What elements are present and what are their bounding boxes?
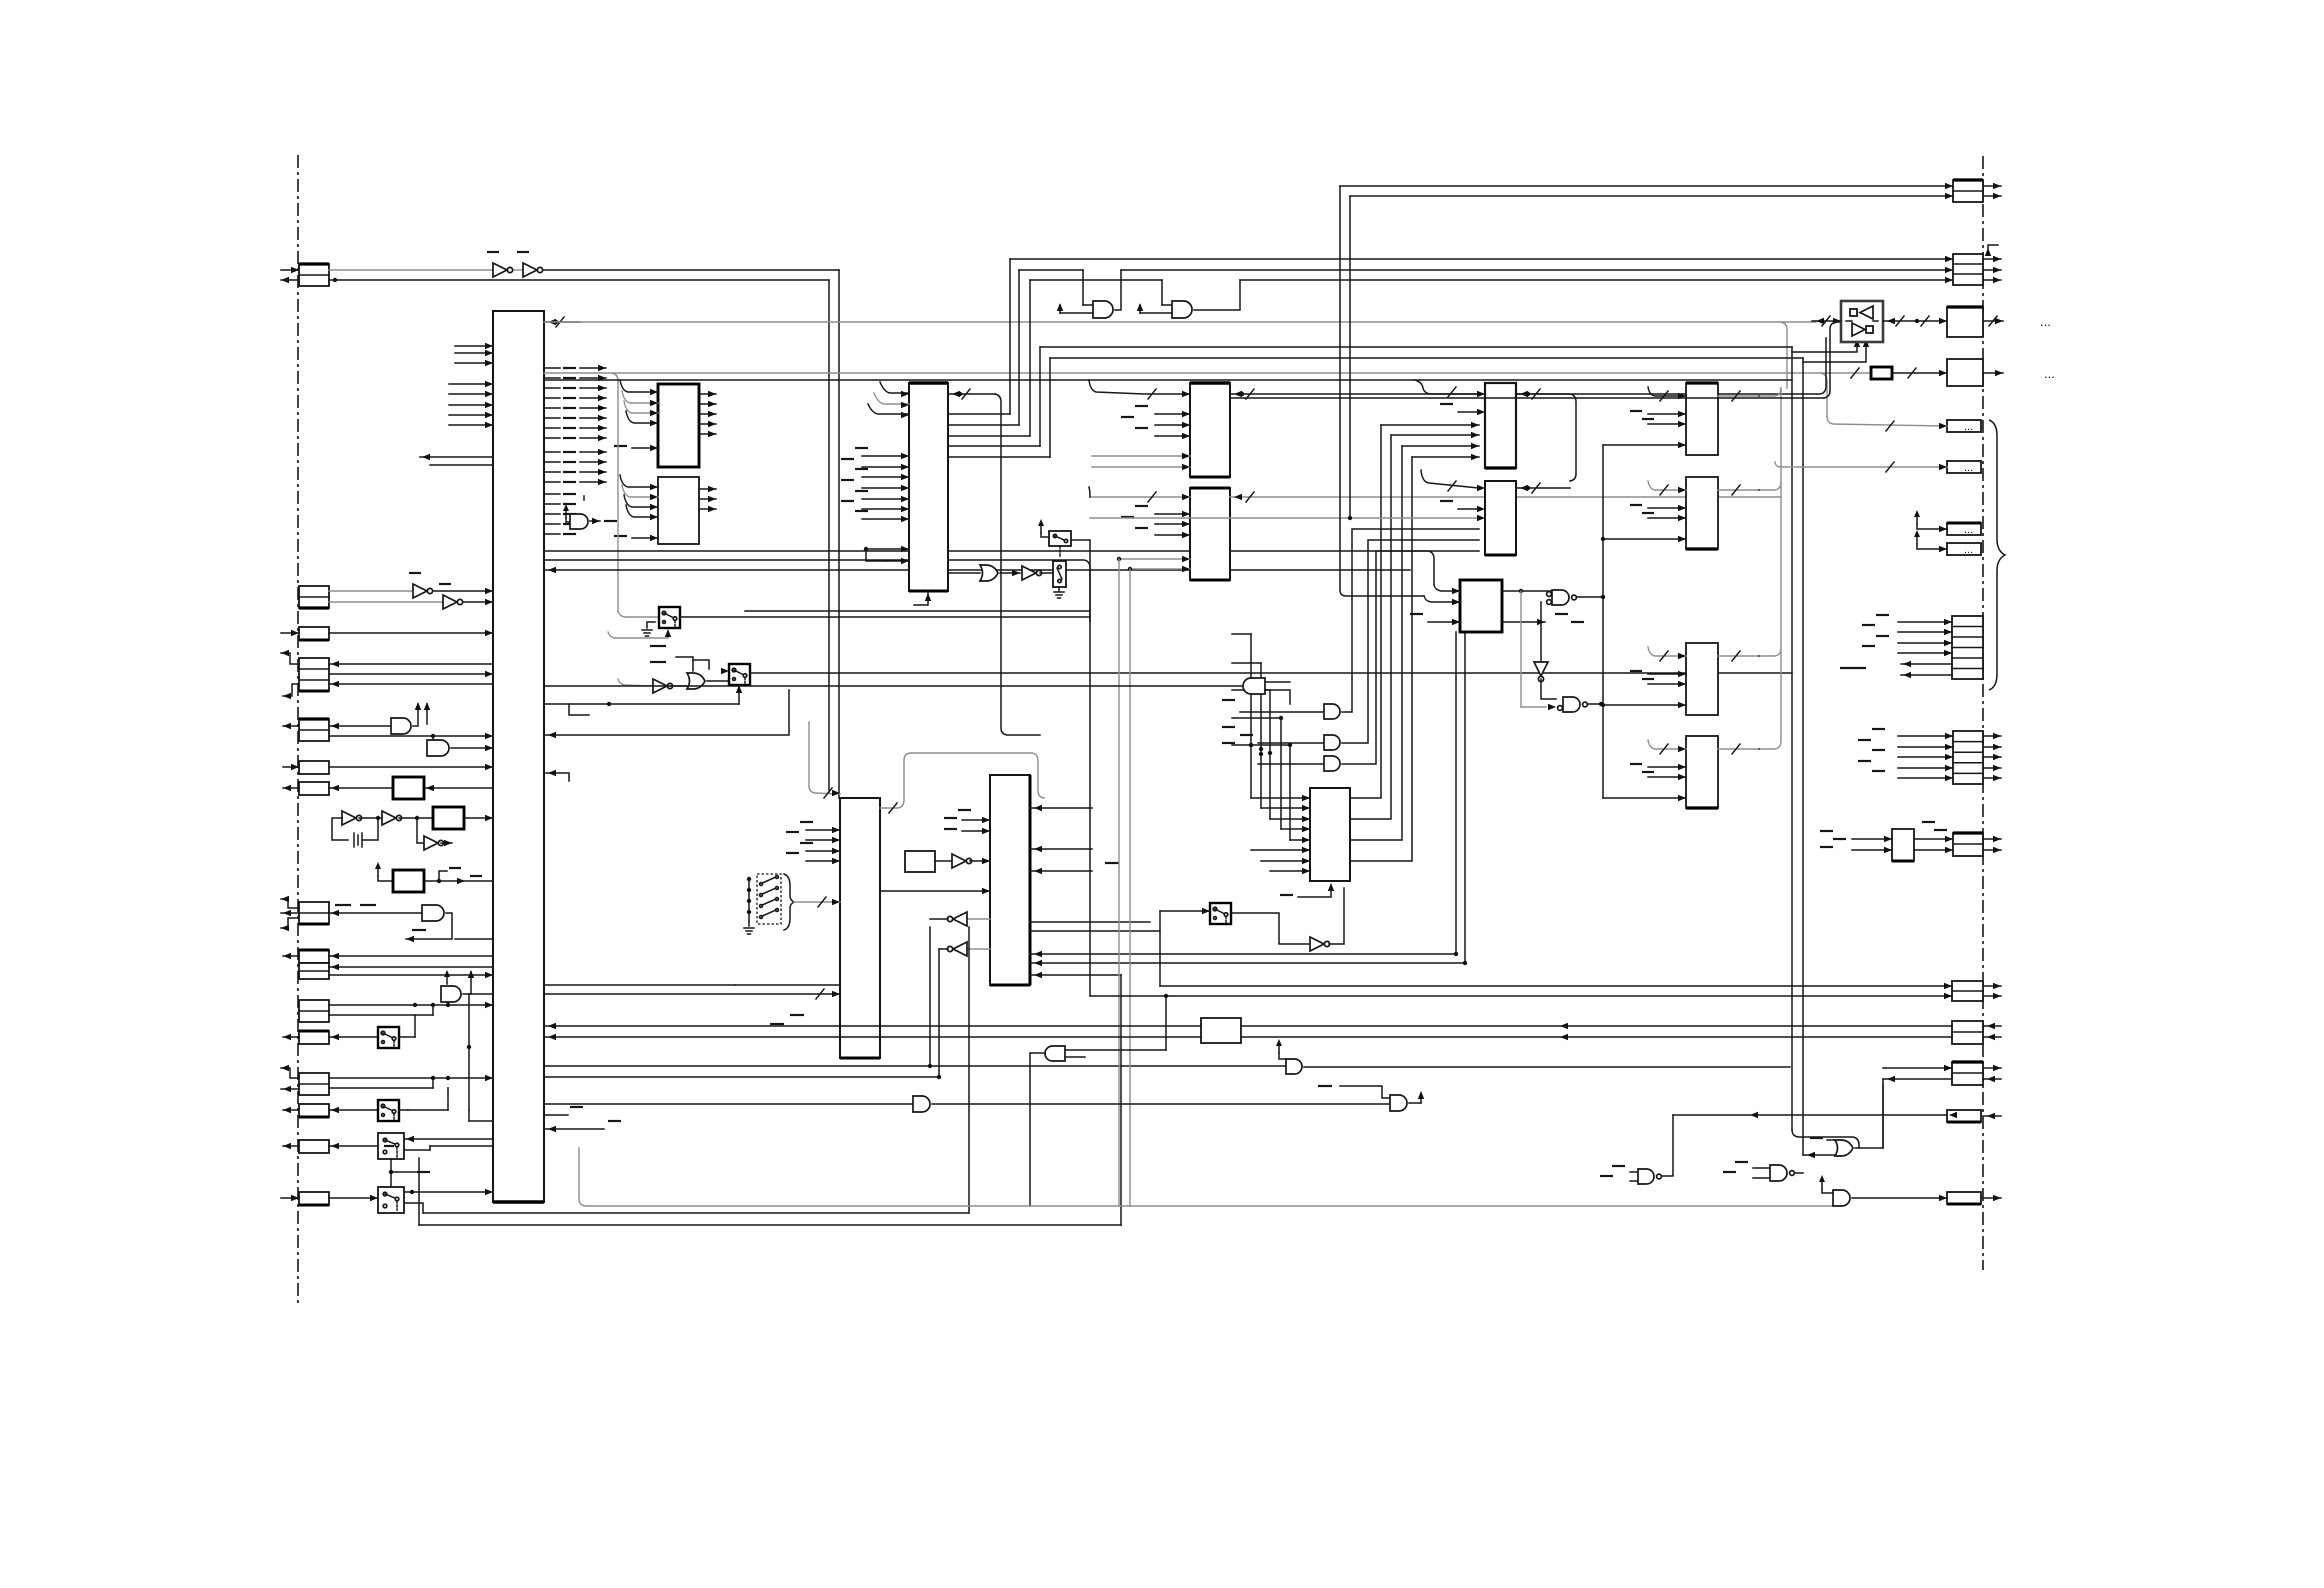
bend of x1792 vertical	[1792, 1130, 1859, 1148]
connector P7 (thin bold top)	[1947, 523, 1981, 536]
net labels above inverter	[650, 646, 666, 662]
wires P13 to left (through series box)	[1241, 1023, 1952, 1040]
AND gate G4	[441, 970, 474, 1005]
AND gate G5 (left of U2)	[563, 496, 617, 529]
U1 right pin rows (lower)	[544, 494, 576, 534]
U5 bottom long wires	[544, 927, 1286, 1077]
connector J10 (3 rows)	[0, 0, 1, 1]
U2 output pins	[699, 391, 716, 437]
U1 top-left pin stubs	[449, 343, 493, 428]
IC U2 (latch, bold)	[658, 384, 699, 467]
SW3 input wires from U1	[404, 1136, 493, 1150]
connector P9 (6-row stack)	[1952, 616, 1983, 679]
series box U17	[544, 1018, 1241, 1043]
wire J5 row2 to AND G2	[329, 733, 493, 746]
wire J3 to U1	[329, 630, 493, 636]
P2 top hook	[1985, 245, 1998, 256]
switch SW4 (2pos)	[329, 1187, 404, 1213]
connector J8 (2 rows)	[299, 902, 329, 924]
risers x1119 x1130 (gray)	[1119, 559, 1130, 1206]
long verticals x1792 x1803	[1792, 347, 1803, 1155]
U19 right bus	[1516, 483, 1570, 493]
connector P5 (thin)	[1947, 420, 1981, 433]
wire J9	[329, 953, 493, 959]
DIP brace	[784, 874, 794, 930]
U11 right bus	[1718, 388, 1781, 401]
top wire W280	[1030, 277, 1953, 283]
U4 bottom stub	[914, 591, 931, 605]
connector J17	[281, 1192, 329, 1205]
J14 wires	[329, 1075, 493, 1088]
U4 clock pin bracket	[864, 546, 909, 564]
J8 hooks	[281, 896, 299, 931]
vertical x1883 riser	[1882, 1079, 1884, 1148]
AND gate G22	[1276, 1039, 1790, 1074]
J4 row wires	[329, 661, 493, 687]
IC U7 (right-mid upper, bold)	[1190, 383, 1230, 477]
IC U3 (latch)	[658, 477, 699, 544]
bus W-380	[544, 379, 1792, 381]
inverter U33	[439, 584, 463, 609]
U1 top-right bus pin	[544, 317, 580, 327]
IC U9 (decoder)	[1310, 788, 1350, 881]
stub W773	[546, 770, 569, 781]
buffer U46	[1022, 566, 1053, 580]
U10 enable	[1410, 614, 1460, 625]
U4 right outputs to nest	[948, 414, 1050, 457]
loop path from U48 to x1090	[745, 540, 1090, 622]
S1 select arrow from below	[608, 629, 671, 638]
U7 left bus input	[1089, 380, 1190, 399]
U6 right wires y954 y963 y975	[1030, 951, 1467, 978]
connector P14 (2 rows bold top)	[1952, 1062, 2001, 1085]
U1 right pin rows (mid)	[544, 449, 606, 485]
gray bottom rail	[579, 1148, 1130, 1206]
wire into P5	[1827, 417, 1947, 431]
gray wire W518 into U19	[1090, 515, 1485, 521]
OR gate G9	[687, 673, 729, 689]
bottom long wires	[419, 975, 1121, 1225]
NAND gate G15	[1558, 697, 1604, 712]
U18 label pin	[1440, 404, 1485, 415]
top wire W347	[1040, 346, 1792, 348]
top wire W259	[1010, 256, 1953, 262]
U18 top bus input	[1415, 380, 1485, 397]
AND gate G2	[427, 740, 493, 756]
U13 bus input	[1648, 647, 1686, 661]
top nest vertical risers from U4 outputs	[1010, 259, 1050, 457]
J12 wires + AND G4	[329, 1002, 493, 1015]
right brace	[1989, 420, 2005, 690]
buffer U55	[1231, 888, 1344, 951]
connector P10 (5-row stack)	[1953, 731, 2001, 784]
inverter U32	[409, 573, 433, 598]
U9 output horizontals into U18	[1381, 422, 1479, 460]
switch S2	[693, 660, 750, 685]
wires J2 to inverters U32 U33	[329, 588, 493, 605]
connector J4 (3 rows)	[299, 658, 329, 691]
U7 lower-left gray pins	[1092, 453, 1190, 470]
U15 right bus to P3	[1883, 316, 1947, 326]
buffer U44	[417, 818, 452, 850]
wires U1 right bottom legs	[469, 1120, 493, 1122]
U12 data pins	[1630, 505, 1686, 521]
J4 hook stubs	[281, 650, 299, 699]
IC U4 (control, tall)	[909, 383, 948, 591]
connector J15	[283, 1104, 329, 1117]
U5 lower-left labels	[770, 1015, 804, 1024]
connector J3	[281, 627, 329, 640]
box U50 + buffer U51 feeding U6	[905, 851, 990, 872]
wire J5 row1 to AND G1	[329, 723, 391, 729]
vertical trunk x469	[467, 994, 493, 1121]
switch S3	[1160, 903, 1231, 924]
IC U8 (right-mid lower)	[1190, 488, 1230, 580]
S2 output long wire	[750, 672, 1792, 674]
J11 wires	[329, 964, 493, 978]
mux switch U48 (horizontal)	[1038, 519, 1071, 556]
IC U6 (tall mid right)	[990, 775, 1030, 985]
box U43 (osc divider)	[399, 807, 493, 829]
U3 enable input	[614, 535, 658, 541]
connector P16 (thin)	[1947, 1192, 2001, 1204]
svg-text:...: ...	[1964, 524, 1973, 536]
U7 right bus out	[1230, 338, 1826, 399]
gray bus W-g322	[544, 322, 1816, 388]
wire J8 to AND G3	[329, 905, 422, 916]
junction trunk between SW3 SW4	[389, 1159, 430, 1187]
IC U1 (main gate array, tall)	[493, 311, 544, 1202]
U5 top-left bus	[809, 722, 840, 798]
oscillator inverter U42	[359, 811, 402, 825]
U6 right wires y922 y931	[1030, 922, 1160, 931]
inverter U49	[618, 679, 687, 693]
U4 top-right bus pin	[948, 389, 1040, 735]
crystal X1	[354, 818, 378, 847]
U6 right side pins	[1030, 805, 1119, 874]
wire x1090 riser to W617	[1089, 617, 1091, 996]
trunk from switches to U1 bottom wires	[408, 1088, 448, 1110]
wire J6 to U1	[329, 764, 493, 770]
connector J12 (2 rows)	[299, 1000, 329, 1022]
left board boundary dash-dot line	[297, 155, 299, 1305]
U8 right bus out gray	[1230, 492, 1781, 502]
switch SW2	[329, 1088, 469, 1121]
U19 label pin	[1440, 501, 1485, 512]
U5 left input pins	[786, 822, 840, 864]
U14 clock pin long	[1603, 795, 1686, 801]
connector J6	[283, 761, 329, 774]
U9 enable	[1280, 883, 1334, 897]
OR gate G8 (U4 out)	[948, 565, 1020, 581]
switch SW3 (2pos)	[329, 1133, 404, 1159]
U14 bus input	[1648, 740, 1686, 754]
U5 top-right bus loop	[880, 753, 1044, 813]
IC U16 (small, by right edge)	[1892, 829, 1914, 861]
wire U5 to U6 y891	[880, 888, 990, 894]
connector P12 (2 rows)	[1952, 981, 2001, 1001]
tri-state buffer U53	[937, 942, 990, 1079]
connector J9	[283, 950, 329, 963]
U1 left stub arrow out y457	[420, 454, 493, 465]
svg-text:...: ...	[2040, 314, 2051, 329]
AND gate G19	[1130, 1175, 1947, 1206]
connector J1 (top-left, 2 rows)	[281, 264, 329, 286]
U1 right pin rows with net labels (upper)	[544, 365, 606, 441]
AND gate G10	[1222, 529, 1479, 719]
NAND gate G18	[1723, 1162, 1803, 1181]
wires into P12	[1090, 911, 1952, 999]
U8 lower-left pins from risers	[1117, 556, 1190, 572]
P8 power hook	[1914, 530, 1947, 552]
U13 clock pin long	[1603, 702, 1686, 708]
clock trunk	[1601, 445, 1605, 798]
AND gate G1	[391, 702, 421, 734]
riser x1090 vertical (bus feed)	[1089, 380, 1090, 497]
U11 bus input	[1648, 387, 1686, 401]
IC U5 (tall mid)	[840, 798, 880, 1058]
AND gate G12	[1258, 551, 1479, 771]
right board boundary dash-dot line	[1982, 156, 1984, 1270]
OR gate G17	[1803, 1085, 1883, 1158]
svg-text:...: ...	[1964, 544, 1973, 556]
IC U13 (register)	[1686, 643, 1718, 715]
U15 left bus wires	[1230, 316, 1841, 398]
AND gate G6 (top)	[1057, 270, 1121, 318]
wire into P15 from G16	[1673, 1112, 1957, 1118]
tri-state buffer U52	[928, 912, 990, 1068]
U19 bus input	[1421, 470, 1485, 491]
IC U12 (register)	[1686, 477, 1718, 549]
connector P4	[1947, 359, 2055, 386]
connector P2 (3 rows)	[1953, 254, 2001, 285]
AND gate G7 (top)	[1137, 280, 1240, 318]
connector J5 (2 rows)	[283, 719, 329, 741]
bus W-g373 (gray mid bus)	[544, 373, 1871, 611]
U11 clock pin long	[1603, 442, 1686, 448]
svg-text:...: ...	[1964, 421, 1973, 433]
connector P6 (thin)	[1947, 461, 1981, 474]
gray feedback vertical	[1521, 591, 1556, 710]
S2 bottom select from W704	[544, 685, 742, 715]
wire top pair bends down	[829, 270, 839, 798]
inverter U30	[487, 252, 513, 277]
connector J14 (2 rows)	[299, 1073, 329, 1095]
U3 output pins	[699, 486, 716, 512]
U2 enable input	[614, 445, 658, 451]
switch SW1	[329, 1003, 417, 1048]
U8 left pins	[1121, 506, 1190, 538]
U7 left pins	[1121, 406, 1190, 439]
U12 right bus	[1718, 482, 1781, 495]
wire J1 out (gray) through inverters	[329, 270, 839, 282]
connector P15 (thin)	[1947, 1110, 2001, 1122]
AND gate G3	[406, 905, 493, 942]
box U45	[375, 862, 493, 892]
connector J11 (3 rows)	[299, 963, 329, 979]
gray bus spine x1781	[1780, 388, 1782, 741]
S1 output wire long	[680, 616, 1090, 618]
U4 left pins with labels	[841, 448, 909, 522]
top wire W270	[1019, 267, 1953, 273]
U12 bus input	[1648, 481, 1686, 495]
bidirectional buffer U15	[1841, 301, 1883, 342]
oscillator inverter U41	[332, 811, 362, 840]
U16 outputs + labels	[1914, 822, 1953, 853]
connector P13 (2 rows)	[1952, 1021, 2001, 1044]
D-gate G13 (output-left AND)	[544, 678, 1290, 704]
U4 input curves top	[868, 382, 909, 418]
U13 data pins	[1630, 671, 1686, 687]
U10 out wires	[1502, 589, 1584, 625]
D-gate G21 (output-left)	[1030, 994, 1168, 1206]
U14 right bus	[1718, 741, 1781, 754]
connector P8 (thin)	[1947, 543, 1981, 556]
AND gate G20 (bottom mid)	[544, 1096, 1390, 1112]
top wire W358	[1050, 357, 1803, 359]
IC U10 (bold box mid-right)	[1460, 580, 1502, 632]
IC U11 (register)	[1686, 383, 1718, 455]
U16 inputs	[1820, 831, 1892, 853]
wires U1-to-U8 rows y551 y560 y570	[544, 551, 1434, 617]
AND gate G23	[1318, 1086, 1424, 1111]
box U40 (level shifter)	[329, 777, 493, 799]
DIP bus wire to U5	[794, 897, 840, 907]
svg-text:...: ...	[2044, 366, 2055, 381]
J14 hooks	[281, 1065, 299, 1092]
vertical riser x969	[968, 927, 970, 1213]
P7 power hook	[1914, 510, 1947, 532]
U14 data pins	[1630, 764, 1686, 780]
buffer enable stubs	[1792, 339, 1869, 362]
U9 feeder horizontals	[1232, 634, 1290, 756]
U9 input columns	[1249, 634, 1310, 874]
svg-text:...: ...	[1964, 462, 1973, 474]
U11 data pins	[1630, 411, 1686, 427]
U2 input curves	[620, 380, 658, 426]
wires into U5 left at 985/994	[544, 985, 840, 999]
inverter U31	[517, 252, 543, 277]
switch S1	[618, 607, 680, 628]
down inverter U54	[1534, 602, 1556, 699]
wire W735	[544, 690, 789, 738]
U6 left pins	[944, 810, 990, 834]
connector P1 (2 rows)	[1953, 180, 2001, 202]
U3 input curves	[620, 475, 658, 520]
analog switch U47 (vertical)	[1053, 561, 1066, 598]
connector P3	[1947, 307, 2051, 337]
P9 input wires	[1840, 615, 1952, 678]
U1 bottom right wires	[544, 985, 621, 1132]
series resistor RN1	[1851, 367, 1947, 379]
wires into P1	[1340, 183, 1953, 596]
connector J2 (2 rows)	[299, 586, 329, 608]
SW4 output wires	[404, 1189, 493, 1213]
U10 input curves	[1424, 585, 1460, 605]
U9 outputs right risers	[1350, 425, 1412, 861]
NAND gate G16	[1600, 1115, 1673, 1184]
AND gate G11	[1222, 540, 1479, 750]
IC U19 (mid-right counter)	[1485, 481, 1516, 555]
DIP switch block SW5	[744, 874, 781, 934]
U13 right bus	[1718, 648, 1781, 661]
U12 clock pin long	[1603, 536, 1686, 542]
IC U18 (mid-right counter, bold)	[1485, 383, 1516, 468]
connector P11 (2 rows bold top)	[1953, 833, 2001, 856]
NAND gate G14	[1547, 590, 1603, 605]
risers x1456 x1465	[1456, 632, 1465, 963]
wires into P14	[1883, 1065, 1952, 1082]
IC U14 (register)	[1686, 736, 1718, 808]
connector J7	[283, 782, 329, 795]
power arrow above G1	[424, 702, 430, 724]
wire label feed to OR	[662, 657, 693, 671]
connector J13	[283, 1031, 329, 1044]
connector J16	[283, 1140, 329, 1153]
U8 left bus input gray	[1090, 492, 1190, 502]
wire into P6 (gray)	[1775, 462, 1947, 472]
U18 right bus	[1516, 389, 1576, 481]
P10 input wires	[1858, 729, 1953, 781]
S1 ground stub	[642, 622, 655, 636]
